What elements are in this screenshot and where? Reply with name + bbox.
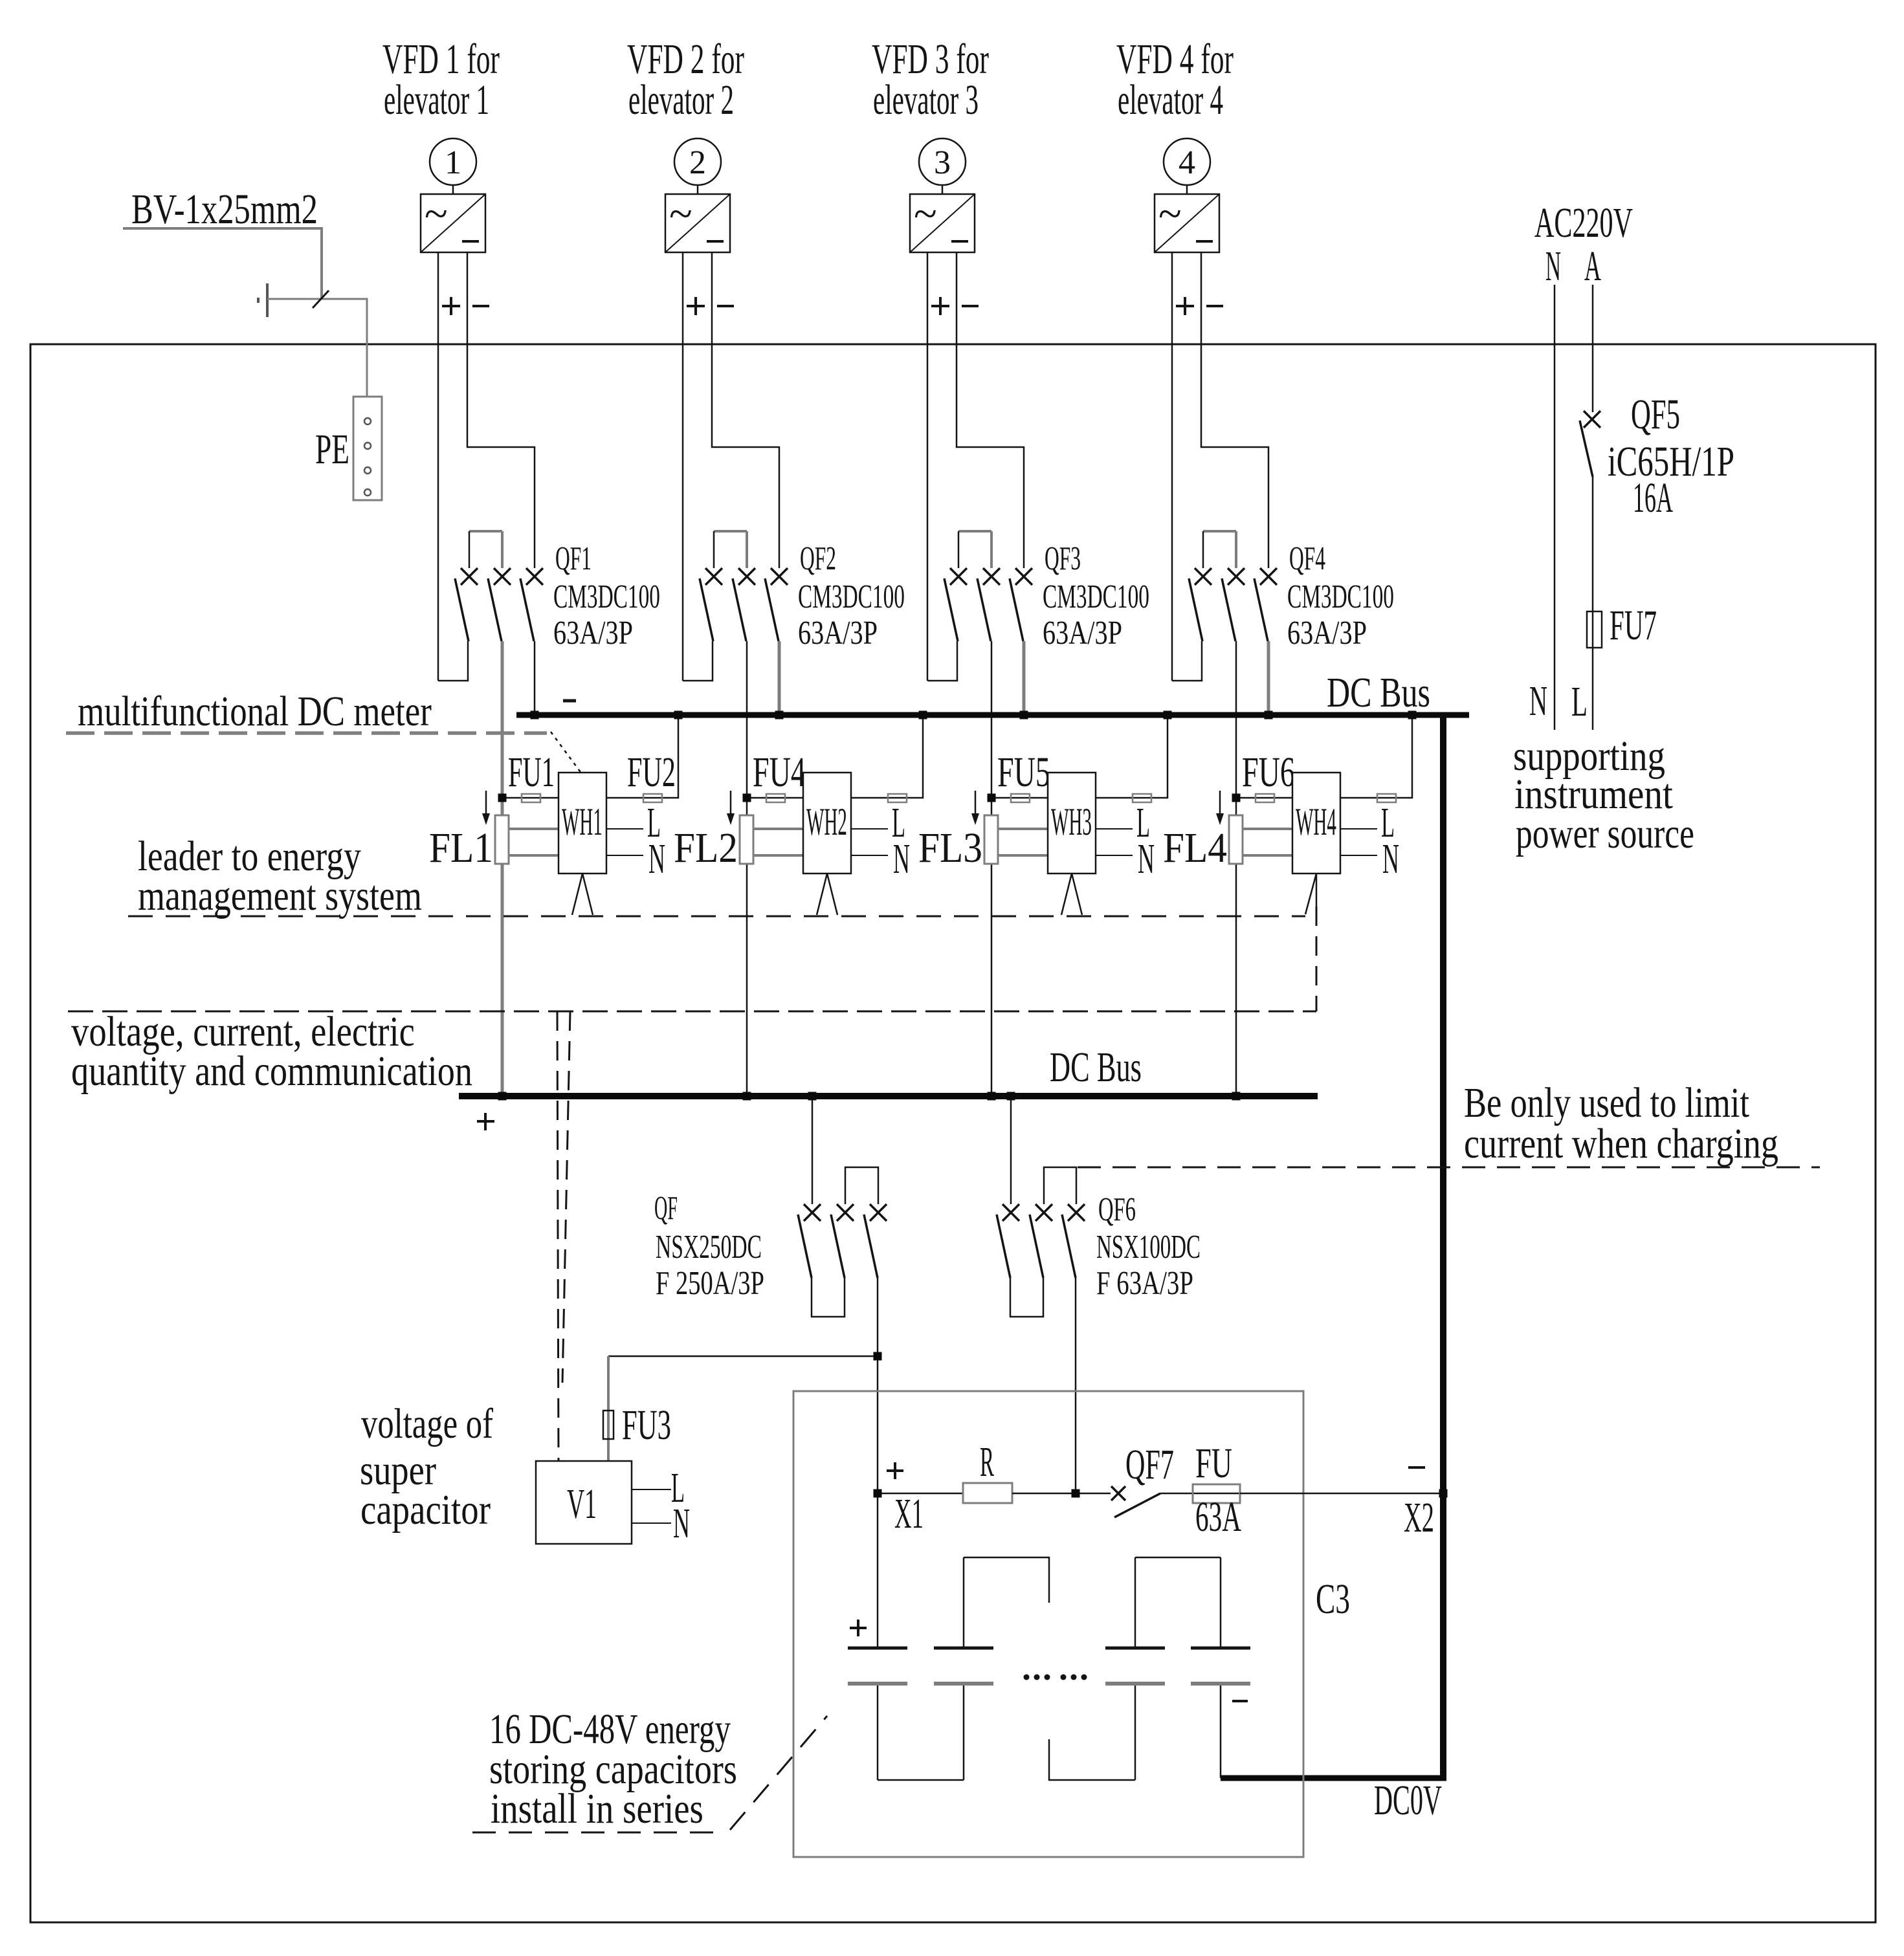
svg-text:DC0V: DC0V [1374, 1776, 1442, 1824]
node QF6 feed / lower bus [1007, 1092, 1015, 1101]
svg-text:CM3DC100: CM3DC100 [798, 578, 905, 615]
label VFD 3 for / elevator 3 [872, 36, 989, 123]
shunt FL2 [740, 815, 753, 864]
label leader to energy management system [138, 833, 422, 919]
wire DC bus to breaker QF [812, 1096, 814, 1204]
series link U1 (bottom) [878, 1779, 964, 1781]
dashed charge-limit leader [1078, 1167, 1820, 1169]
node branch3 riser / upper bus [1164, 711, 1172, 720]
wire QF2 pole3 output to DC bus [778, 641, 781, 712]
capacitor cabinet C3 box [793, 1391, 1303, 1857]
motor circle 1 [430, 138, 476, 185]
wire V1 L terminal [632, 1489, 671, 1490]
wire VFD2 DC- output (steps right) [712, 252, 779, 568]
wire WH3 N terminal [1096, 855, 1133, 856]
svg-text:63A/3P: 63A/3P [1287, 615, 1367, 652]
wire QF6 output [1075, 1278, 1077, 1493]
wires FL1 to WH1 [509, 829, 559, 855]
label - at X2 [1408, 1466, 1425, 1469]
node meter tap 1 [498, 794, 507, 802]
svg-text:AC220V: AC220V [1534, 199, 1633, 247]
svg-text:N: N [673, 1500, 690, 1547]
svg-text:FU3: FU3 [622, 1401, 671, 1449]
comm leader fork under WH2 [817, 874, 837, 915]
svg-text:V1: V1 [567, 1480, 597, 1528]
svg-text:QF5: QF5 [1631, 391, 1680, 439]
svg-text:FL1: FL1 [429, 824, 493, 872]
svg-text:QF2: QF2 [800, 540, 836, 577]
svg-text:FU7: FU7 [1610, 601, 1657, 648]
arrow current direction [971, 791, 979, 825]
wire QF output [877, 1278, 879, 1493]
fuse FU5 [1011, 794, 1030, 802]
svg-text:X1: X1 [894, 1489, 924, 1537]
capacitor 4 [1191, 1557, 1250, 1778]
svg-text:CM3DC100: CM3DC100 [1043, 578, 1149, 615]
label supporting instrument power source [1513, 732, 1694, 857]
breaker QF3 pole contacts (x marks) [950, 568, 1032, 585]
svg-text:FL4: FL4 [1163, 824, 1227, 872]
wire WH2 L terminal [851, 828, 888, 830]
label QF2 CM3DC100 63A/3P [798, 540, 905, 652]
svg-text:WH2: WH2 [806, 801, 847, 844]
cabinet enclosure frame [30, 344, 1876, 1922]
svg-text:63A/3P: 63A/3P [1043, 615, 1122, 652]
label - polarity [717, 305, 734, 307]
svg-text:L: L [1571, 677, 1588, 725]
breaker QF1 bracket [438, 641, 468, 681]
motor circle 3 [919, 138, 966, 185]
node meter tap 3 [988, 794, 996, 802]
wire AC live lower [1592, 648, 1594, 730]
wire WH4 N terminal [1340, 855, 1377, 856]
dotted leader to WH1 [551, 732, 582, 774]
svg-text:N: N [1529, 677, 1547, 724]
dashed energy-management line [128, 916, 1305, 918]
fuse FU6 [1256, 794, 1274, 802]
voltmeter V1 [536, 1461, 632, 1544]
node QF4 pole3 / upper bus [1265, 711, 1273, 720]
label - at capacitor 4 [1232, 1700, 1248, 1702]
svg-text:QF6: QF6 [1098, 1191, 1136, 1228]
wire meter feed left [991, 797, 1048, 799]
wire circle to VFD box [697, 185, 699, 194]
svg-text:Be only used to limit: Be only used to limit [1464, 1079, 1749, 1126]
dashed communication line [68, 1011, 1316, 1013]
wire circle to VFD box [452, 185, 454, 194]
svg-text:~: ~ [914, 190, 937, 237]
label QF5 iC65H/1P 16A [1608, 391, 1734, 522]
node meter tap 4 [1232, 794, 1241, 802]
arrow current direction [727, 791, 735, 825]
breaker QF1 top loop [469, 531, 502, 568]
svg-text:C3: C3 [1316, 1576, 1350, 1623]
label QF4 CM3DC100 63A/3P [1287, 540, 1394, 652]
svg-text:FU1: FU1 [508, 748, 555, 796]
svg-text:power source: power source [1516, 809, 1694, 857]
node QF2 pole3 / upper bus [775, 711, 784, 720]
svg-text:voltage of: voltage of [361, 1400, 493, 1447]
wire meter feed right to riser [851, 715, 923, 798]
breaker QF bottom bracket [812, 1278, 845, 1317]
wire circle to VFD box [1186, 185, 1188, 194]
breaker QF3 blades [944, 578, 1023, 641]
breaker QF2 blades [700, 578, 779, 641]
fuse FU3 [603, 1411, 614, 1439]
svg-text:capacitor: capacitor [360, 1486, 491, 1533]
label + below lower bus [477, 1113, 494, 1130]
svg-text:FU2: FU2 [627, 749, 676, 796]
fuse right of WH3 [1133, 794, 1151, 802]
svg-text:63A/3P: 63A/3P [553, 615, 633, 652]
label - above upper bus [563, 699, 576, 703]
svg-text:N: N [648, 836, 665, 883]
wire WH4 L terminal [1340, 828, 1377, 830]
label voltage of super capacitor [360, 1400, 493, 1534]
node QF1 pole3 / upper bus [531, 711, 539, 720]
label + polarity [442, 297, 460, 315]
label + at X1 [887, 1462, 903, 1479]
ground electrode symbol [258, 283, 267, 317]
breaker QF6 top loop [1044, 1167, 1076, 1204]
svg-text:QF7: QF7 [1125, 1441, 1174, 1488]
fuse FU7 [1587, 611, 1602, 648]
node X1 [874, 1489, 882, 1498]
svg-text:WH1: WH1 [562, 801, 603, 844]
breaker QF top loop [845, 1167, 878, 1204]
svg-text:multifunctional DC meter: multifunctional DC meter [78, 688, 432, 735]
svg-text:elevator 2: elevator 2 [628, 76, 734, 123]
breaker QF4 pole contacts (x marks) [1195, 568, 1277, 585]
svg-text:QF3: QF3 [1045, 540, 1081, 577]
wire V1 feed vertical [607, 1356, 610, 1461]
wire WH3 L terminal [1096, 828, 1133, 830]
wire meter feed left [1236, 797, 1292, 799]
node feeder1 / lower bus [498, 1092, 507, 1101]
wire QF7 to FU [1160, 1493, 1240, 1495]
node QF6 output / charge line [1072, 1489, 1080, 1498]
fuse FU (63A) [1193, 1484, 1240, 1503]
svg-text:2: 2 [689, 144, 706, 181]
svg-text:QF: QF [654, 1190, 678, 1227]
wire BV underline leader [123, 228, 322, 299]
breaker QF6 contacts (x marks) [1002, 1204, 1085, 1221]
label QF3 CM3DC100 63A/3P [1043, 540, 1149, 652]
svg-text:16A: 16A [1633, 475, 1673, 522]
DC bus positive (lower) [459, 1093, 1318, 1099]
node QF3 pole3 / upper bus [1020, 711, 1028, 720]
resistor R [963, 1483, 1012, 1503]
wire X1 to R [878, 1493, 963, 1495]
breaker QF5 blade [1580, 421, 1593, 477]
breaker QF1 pole contacts (x marks) [461, 568, 543, 585]
wire FU to X2 [1240, 1493, 1443, 1495]
capacitor 1 [848, 1493, 907, 1780]
svg-text:WH4: WH4 [1296, 801, 1336, 844]
label VFD 2 for / elevator 2 [627, 36, 744, 123]
wire meter feed right to riser [606, 715, 678, 798]
svg-text:F 63A/3P: F 63A/3P [1096, 1264, 1193, 1302]
DC bus negative (upper) [516, 712, 1469, 718]
capacitor 2 [934, 1557, 993, 1780]
meter WH4 [1292, 773, 1340, 874]
breaker QF4 blades [1189, 578, 1268, 641]
svg-text:F 250A/3P: F 250A/3P [656, 1264, 764, 1301]
label - polarity [472, 305, 489, 307]
svg-text:1: 1 [445, 144, 461, 181]
shunt FL1 [495, 815, 509, 864]
svg-text:QF1: QF1 [555, 540, 592, 577]
wire DC bus to breaker QF6 [1010, 1096, 1012, 1204]
shunt FL4 [1229, 815, 1243, 864]
svg-text:WH3: WH3 [1051, 801, 1092, 844]
svg-text:3: 3 [934, 144, 951, 181]
wire meter feed left [747, 797, 803, 799]
wire WH1 L terminal [606, 828, 643, 830]
label + at capacitor 1 [850, 1620, 867, 1636]
wire AC live upper [1592, 285, 1594, 412]
svg-text:FU4: FU4 [753, 749, 806, 796]
svg-text:N: N [1545, 243, 1561, 290]
svg-text:install in series: install in series [491, 1785, 703, 1832]
breaker QF3 bracket [927, 641, 957, 681]
series link top bracket [964, 1557, 1049, 1603]
label + polarity [1176, 297, 1194, 315]
switch QF7 blade [1114, 1493, 1160, 1517]
node feeder4 / lower bus [1232, 1092, 1241, 1101]
wire WH2 N terminal [851, 855, 888, 856]
svg-text:N: N [1382, 836, 1399, 883]
breaker QF6 blades [997, 1214, 1076, 1278]
comm leader fork under WH1 [572, 874, 593, 915]
label VFD 1 for / elevator 1 [382, 36, 500, 123]
svg-text:N: N [1138, 836, 1155, 883]
breaker QF1 blades [455, 578, 534, 641]
wire QF3 pole2 output (+ feeder) [991, 641, 993, 1093]
node branch4 riser / upper bus [1408, 711, 1417, 720]
wire QF1 pole2 output (+ feeder) [501, 641, 504, 1093]
label - polarity [962, 305, 979, 307]
node V1 tap [874, 1352, 882, 1361]
svg-text:DC Bus: DC Bus [1050, 1044, 1142, 1092]
breaker QF5 contact [1584, 411, 1600, 428]
wire V1 tap horizontal [608, 1356, 878, 1357]
svg-text:PE: PE [315, 426, 349, 473]
wire VFD2 DC+ output [682, 252, 684, 681]
wire VFD4 DC+ output [1171, 252, 1173, 681]
svg-text:BV-1x25mm2: BV-1x25mm2 [131, 186, 318, 233]
meter WH3 [1048, 773, 1096, 874]
svg-text:NSX250DC: NSX250DC [656, 1229, 762, 1266]
node meter tap 2 [743, 794, 751, 802]
fuse right of WH2 [888, 794, 907, 802]
VFD inverter U3 (~/-) [910, 190, 975, 252]
breaker QF2 bracket [683, 641, 713, 681]
svg-text:elevator 1: elevator 1 [384, 76, 489, 123]
wires FL4 to WH4 [1243, 829, 1292, 855]
svg-text:FU6: FU6 [1242, 749, 1295, 796]
wire QF1 pole3 output to DC bus [534, 641, 536, 712]
VFD inverter U4 (~/-) [1155, 190, 1219, 252]
breaker QF blades [798, 1214, 878, 1278]
wire R to QF7 [1012, 1493, 1111, 1495]
dashed capacitor callout slant leader [730, 1716, 827, 1830]
series link stub to U2 [1049, 1739, 1135, 1780]
dashed meter underline [66, 731, 547, 735]
breaker QF2 top loop [714, 531, 747, 568]
meter WH1 [559, 773, 606, 874]
wire QF2 pole2 output (+ feeder) [746, 641, 748, 1093]
svg-text:DC Bus: DC Bus [1327, 668, 1430, 716]
label QF1 CM3DC100 63A/3P [553, 540, 660, 652]
wire circle to VFD box [942, 185, 944, 194]
breaker QF3 top loop [958, 531, 991, 568]
svg-text:~: ~ [425, 190, 448, 237]
negative rail vertical (right) [1440, 712, 1446, 1778]
label + polarity [687, 297, 705, 315]
svg-text:FU5: FU5 [997, 749, 1050, 796]
node branch2 riser / upper bus [919, 711, 927, 720]
label - polarity [1206, 305, 1223, 307]
wires FL3 to WH3 [998, 829, 1048, 855]
arrow current direction [1216, 791, 1224, 825]
cable tick slash [313, 291, 329, 308]
svg-text:quantity and communication: quantity and communication [71, 1048, 472, 1095]
svg-text:CM3DC100: CM3DC100 [553, 578, 660, 615]
svg-text:FL3: FL3 [918, 824, 982, 872]
wire VFD1 DC- output (steps right) [467, 252, 535, 568]
wire QF3 pole3 output to DC bus [1023, 641, 1026, 712]
wire AC neutral [1554, 285, 1556, 730]
svg-text:X2: X2 [1404, 1493, 1434, 1541]
svg-text:63A/3P: 63A/3P [798, 615, 878, 652]
dashed link WH4 to communication line [1316, 907, 1318, 1011]
label Be only used to limit current when charging [1464, 1079, 1778, 1167]
wire VFD3 DC+ output [927, 252, 929, 681]
breaker QF2 pole contacts (x marks) [705, 568, 788, 585]
series link top bracket 2 [1135, 1557, 1221, 1559]
svg-text:A: A [1584, 243, 1601, 290]
svg-text:current when charging: current when charging [1464, 1120, 1778, 1167]
wire VFD4 DC- output (steps right) [1201, 252, 1268, 568]
wires FL2 to WH2 [753, 829, 803, 855]
svg-text:N: N [893, 836, 910, 883]
comm leader fork under WH3 [1061, 874, 1082, 915]
wire AC live middle [1592, 477, 1594, 648]
svg-text:NSX100DC: NSX100DC [1096, 1229, 1201, 1266]
wire WH1 N terminal [606, 855, 643, 856]
wire QF4 pole3 output to DC bus [1267, 641, 1270, 712]
shunt FL3 [984, 815, 998, 864]
fuse right of WH1 [643, 794, 662, 802]
node QF feed / lower bus [808, 1092, 817, 1101]
label voltage, current, electric quantity and communication [71, 1008, 472, 1095]
switch QF7 contact [1111, 1486, 1125, 1500]
ellipsis dots [1024, 1675, 1087, 1680]
label QF6 NSX100DC F 63A/3P [1096, 1191, 1201, 1301]
svg-text:63A: 63A [1195, 1493, 1241, 1540]
breaker QF contacts (x marks) [804, 1204, 887, 1221]
label + polarity [931, 297, 949, 315]
svg-text:QF4: QF4 [1289, 540, 1325, 577]
PE terminal block [353, 397, 382, 500]
svg-text:~: ~ [669, 190, 692, 237]
wire meter feed left [502, 797, 559, 799]
label 16 DC-48V energy storing capacitors install in series [489, 1705, 737, 1832]
wire meter feed right to riser [1096, 715, 1168, 798]
negative rail bottom link [1221, 1775, 1446, 1781]
svg-text:CM3DC100: CM3DC100 [1287, 578, 1394, 615]
svg-text:~: ~ [1158, 190, 1182, 237]
svg-text:R: R [980, 1439, 994, 1486]
svg-text:elevator 4: elevator 4 [1118, 76, 1223, 123]
arrow current direction [482, 791, 490, 825]
motor circle 4 [1164, 138, 1210, 185]
fuse FU1 [522, 794, 540, 802]
VFD inverter U2 (~/-) [665, 190, 730, 252]
svg-text:FL2: FL2 [674, 824, 738, 872]
fuse right of WH4 [1377, 794, 1396, 802]
junction dots [498, 711, 1448, 1498]
svg-text:management system: management system [138, 872, 422, 919]
node X2 [1439, 1489, 1448, 1498]
label QF NSX250DC F 250A/3P [654, 1190, 764, 1301]
breaker QF6 bottom bracket [1010, 1278, 1043, 1317]
svg-text:FU: FU [1195, 1440, 1232, 1488]
label VFD 4 for / elevator 4 [1116, 36, 1234, 123]
node feeder3 / lower bus [988, 1092, 996, 1101]
wire meter feed right to riser [1340, 715, 1412, 798]
meter WH2 [803, 773, 851, 874]
capacitor 3 [1105, 1557, 1165, 1780]
motor circle 2 [674, 138, 721, 185]
wire VFD3 DC- output (steps right) [957, 252, 1024, 568]
svg-text:4: 4 [1179, 144, 1195, 181]
wire ground to PE [267, 299, 367, 397]
comm leader fork under WH4 [1305, 874, 1316, 914]
node FU2 riser / upper bus [674, 711, 683, 720]
VFD inverter U1 (~/-) [421, 190, 485, 252]
breaker QF4 top loop [1203, 531, 1236, 568]
dashed capacitor callout underline [472, 1832, 725, 1834]
dashed measurement pair to V1 [557, 1011, 570, 1461]
svg-text:elevator 3: elevator 3 [873, 76, 979, 123]
wire VFD1 DC+ output [437, 252, 439, 681]
node feeder2 / lower bus [743, 1092, 751, 1101]
wire QF4 pole2 output (+ feeder) [1235, 641, 1237, 1093]
breaker QF4 bracket [1172, 641, 1202, 681]
fuse FU4 [766, 794, 785, 802]
wire V1 N terminal [632, 1522, 671, 1524]
